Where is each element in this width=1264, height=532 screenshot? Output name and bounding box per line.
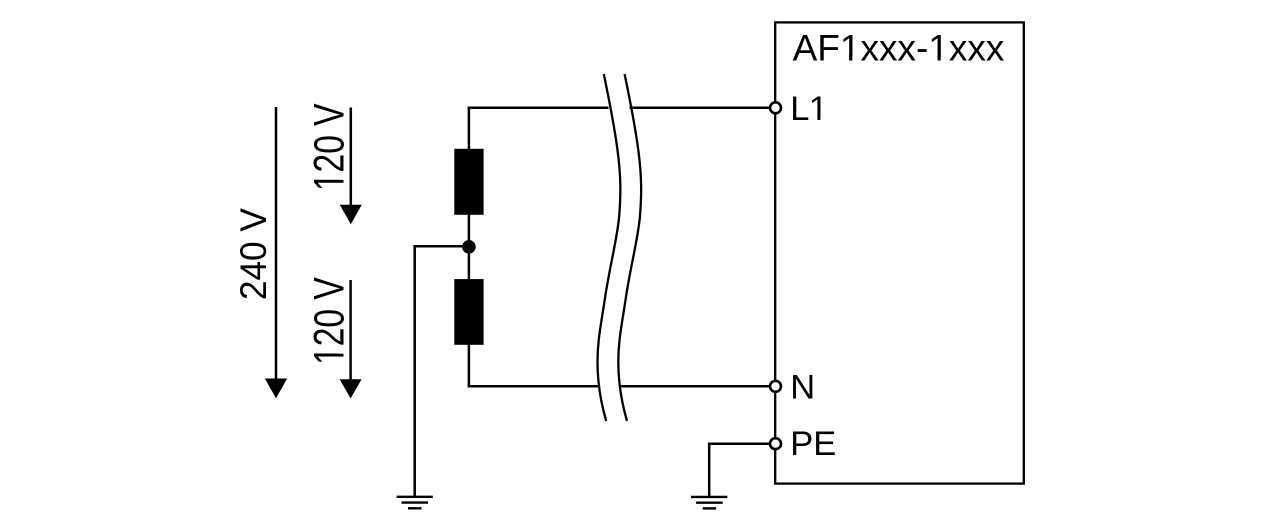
cable break mark (left wavy line) [598, 74, 621, 421]
ground symbol (center tap earth) [397, 497, 433, 509]
winding W2 (lower transformer half, filled rectangle) [454, 279, 483, 345]
voltage arrow 240 V (shaft) [275, 107, 278, 380]
svg-text:AF1xxx-1xxx: AF1xxx-1xxx [793, 28, 1005, 69]
wire: top phase wire left segment (winding to cable break) [468, 107, 609, 110]
device box U1 (AF1xxx-1xxx enclosure) [775, 22, 1024, 483]
wire: neutral wire right segment (cable break to N) [620, 385, 770, 388]
voltage arrow 120 V upper (head) [340, 205, 362, 225]
cable break mark (right wavy line) [618, 74, 641, 421]
wire: vertical from top wire to upper winding [468, 108, 471, 150]
label 120 V upper (rotated) [306, 103, 354, 191]
svg-text:120 V: 120 V [306, 277, 354, 365]
svg-text:L1: L1 [790, 90, 828, 128]
svg-text:N: N [790, 368, 815, 406]
voltage arrow 240 V (head) [265, 379, 287, 399]
voltage arrow 120 V lower (shaft) [349, 280, 352, 381]
wire: PE to earth, horizontal run [708, 442, 771, 445]
terminal PE (open circle) [770, 438, 781, 449]
wire: below lower winding to neutral wire [468, 344, 471, 386]
voltage arrow 120 V lower (head) [340, 379, 362, 398]
terminal L1 (open circle) [770, 102, 781, 113]
wire: top phase wire right segment (cable break to L1) [630, 107, 771, 110]
winding W1 (upper transformer half, filled rectangle) [454, 149, 483, 215]
device label AF1xxx-1xxx [793, 28, 1005, 69]
svg-text:PE: PE [790, 425, 836, 463]
svg-text:240 V: 240 V [232, 207, 274, 300]
terminal N (open circle) [770, 381, 781, 392]
wire: between windings through center tap [468, 214, 471, 280]
wire: neutral wire left segment (winding to cable break) [468, 385, 600, 388]
pin label L1 [790, 90, 828, 128]
wire: center tap earth drop, vertical run [413, 246, 416, 496]
voltage arrow 120 V upper (shaft) [350, 108, 353, 207]
wire: center tap to earth, horizontal run [413, 245, 469, 248]
junction dot: center tap node [462, 240, 476, 254]
ground symbol (PE earth) [691, 497, 727, 509]
label 120 V lower (rotated) [306, 277, 354, 365]
wire: PE earth drop, vertical run [708, 444, 711, 497]
svg-text:120 V: 120 V [306, 103, 354, 191]
